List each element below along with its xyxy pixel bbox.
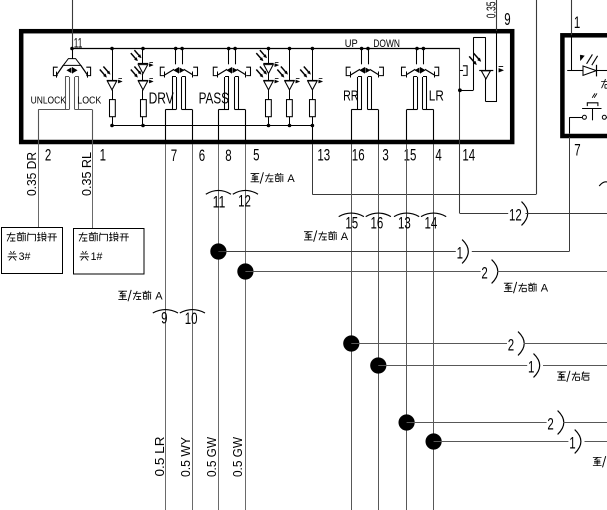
svg-text:2: 2	[45, 146, 51, 164]
svg-text:14: 14	[425, 215, 438, 233]
svg-text:10: 10	[185, 310, 198, 328]
svg-text:0.35 DR: 0.35 DR	[24, 152, 39, 196]
svg-text:RR: RR	[343, 88, 359, 105]
svg-text:0.5 WY: 0.5 WY	[179, 436, 193, 477]
svg-text:14: 14	[462, 146, 475, 164]
svg-text:A: A	[155, 291, 163, 303]
svg-text:1: 1	[528, 358, 534, 376]
svg-text:5: 5	[253, 146, 259, 164]
svg-text:13: 13	[317, 146, 330, 164]
svg-text:15: 15	[404, 146, 417, 164]
svg-text:8: 8	[225, 147, 231, 165]
svg-text:1#: 1#	[91, 251, 103, 263]
svg-text:1: 1	[574, 14, 580, 32]
svg-text:UP: UP	[345, 38, 358, 50]
svg-text:4: 4	[435, 146, 441, 164]
svg-text:3: 3	[382, 146, 388, 164]
svg-text:11: 11	[213, 193, 226, 211]
svg-text:0.35: 0.35	[483, 2, 498, 19]
svg-text:0.5 GW: 0.5 GW	[231, 437, 245, 477]
svg-text:0.5 GW: 0.5 GW	[205, 437, 219, 477]
svg-text:LR: LR	[429, 88, 444, 105]
svg-text:7: 7	[171, 147, 177, 165]
svg-text:3#: 3#	[19, 251, 31, 263]
svg-text:2: 2	[481, 264, 487, 282]
svg-text:15: 15	[345, 215, 358, 233]
svg-text:2: 2	[547, 415, 553, 433]
svg-text:1: 1	[100, 146, 106, 164]
svg-text:9: 9	[504, 9, 510, 29]
svg-text:A: A	[287, 173, 295, 185]
svg-text:12: 12	[238, 193, 251, 211]
svg-text:1: 1	[457, 244, 463, 262]
svg-text:A: A	[341, 231, 349, 243]
svg-text:0.5 LR: 0.5 LR	[153, 437, 167, 477]
svg-text:9: 9	[161, 310, 167, 328]
svg-text:16: 16	[371, 215, 384, 233]
svg-text:0.35 RL: 0.35 RL	[79, 152, 94, 196]
svg-text:16: 16	[352, 146, 365, 164]
svg-text:2: 2	[508, 336, 514, 354]
svg-text:12: 12	[509, 206, 522, 224]
svg-text:DOWN: DOWN	[373, 38, 400, 50]
svg-text:1: 1	[569, 434, 575, 452]
svg-text:LOCK: LOCK	[77, 96, 101, 107]
svg-text:6: 6	[199, 147, 205, 165]
svg-text:UNLOCK: UNLOCK	[31, 96, 67, 107]
svg-text:DRV: DRV	[149, 90, 175, 107]
svg-text:7: 7	[574, 141, 580, 159]
svg-text:A: A	[541, 283, 549, 295]
svg-text:PASS: PASS	[199, 90, 229, 107]
svg-text:13: 13	[398, 215, 411, 233]
